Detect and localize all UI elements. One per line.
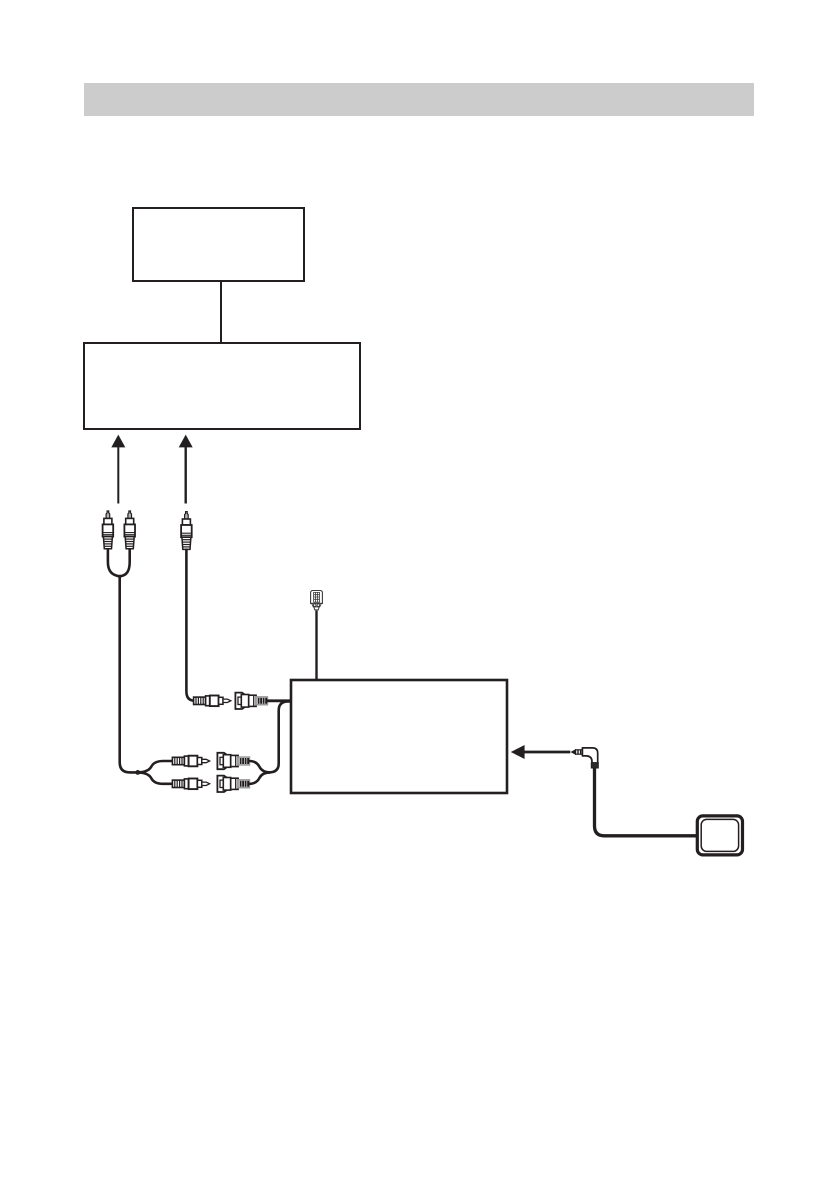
wire: antenna plug to nav unit bbox=[315, 611, 317, 681]
wire: split to audio plugs bbox=[139, 761, 172, 784]
wire: video cable down bbox=[186, 549, 195, 701]
header bar bbox=[84, 83, 754, 116]
RCA plug: audio L male (right) bbox=[172, 756, 209, 767]
RCA plug: audio right (up) bbox=[124, 511, 135, 549]
wire: audio adapters merge to nav unit bbox=[249, 701, 292, 783]
RCA adapter: audio R jack bbox=[217, 776, 249, 792]
box: display monitor (top) bbox=[133, 208, 304, 281]
RCA adapter: audio L jack bbox=[217, 753, 249, 769]
RCA plug: video (up) bbox=[181, 512, 192, 550]
junction: audio cable split bbox=[135, 770, 140, 775]
arrow into head unit (video) bbox=[179, 435, 193, 504]
box: AV head unit bbox=[84, 343, 360, 429]
RCA plug: audio left (up) bbox=[103, 511, 114, 549]
RCA adapter: video jack bbox=[235, 693, 267, 709]
arrow into nav unit (GPS antenna) bbox=[511, 745, 571, 759]
box: navigation unit bbox=[291, 680, 507, 793]
wire: audio Y-cable bbox=[108, 548, 137, 772]
connector: antenna mini plug bbox=[311, 591, 323, 610]
RCA plug: audio R male (right) bbox=[172, 779, 209, 790]
GPS antenna module bbox=[697, 816, 742, 855]
plug: 3.5mm right-angle bbox=[572, 748, 599, 768]
arrow into head unit (audio) bbox=[111, 435, 125, 504]
wire: GPS antenna cable bbox=[595, 768, 698, 836]
RCA plug: video male (right) bbox=[194, 696, 231, 707]
wire: monitor to head unit bbox=[220, 281, 222, 343]
wire: video adapter to nav unit bbox=[267, 699, 292, 702]
